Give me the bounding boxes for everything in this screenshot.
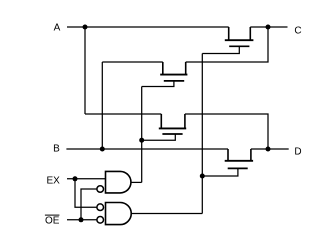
node junction D: [266, 147, 271, 152]
wire A to Q3 left (A-D net): [85, 113, 161, 115]
bubble U1 input 2: [97, 186, 104, 193]
wire C output: [250, 26, 287, 28]
wire A horizontal (A to Q1 left): [67, 26, 229, 28]
transistor Q4 (B-D pass): [225, 149, 253, 168]
svg-text:EX: EX: [47, 176, 61, 187]
node junction EX: [73, 176, 78, 181]
wire EX branch to U2 inverted input: [75, 179, 97, 207]
svg-text:B: B: [53, 143, 60, 154]
wire Q2 right to C vertical (B-C net): [186, 27, 268, 62]
wire straight-enable net vertical (U2 out to Q1/Q4 gates): [201, 54, 203, 214]
wire OE input: [67, 219, 97, 221]
wire Q3 gate lead: [142, 134, 176, 140]
svg-text:D: D: [294, 147, 301, 158]
wire Q1 gate lead: [202, 46, 239, 53]
wire B vertical branch to B-C net: [101, 62, 103, 149]
svg-text:A: A: [54, 22, 61, 33]
node junction A: [83, 25, 88, 30]
wire U1 output: [131, 181, 142, 183]
wire A vertical branch: [84, 27, 86, 114]
bubble U2 input 2: [97, 217, 104, 224]
node junction C: [266, 25, 271, 30]
op-amp U1 : AND gate EX AND NOT OE: [106, 171, 131, 193]
transistor Q3 (A-D pass): [159, 114, 186, 134]
node junction B: [100, 147, 105, 152]
node junction exchange net: [139, 138, 144, 143]
transistor Q2 (B-C pass): [160, 62, 187, 81]
wire OE branch to U1 inverted input: [81, 189, 97, 220]
bubble U2 input 1: [97, 204, 104, 211]
node junction OE: [79, 217, 84, 222]
wire D output: [251, 148, 289, 150]
svg-text:C: C: [294, 26, 301, 37]
op-amp U2 : AND gate NOT EX AND NOT OE: [106, 203, 132, 225]
wire EX input: [67, 178, 106, 180]
wire exchange-enable net vertical (U1 out to Q2/Q3 gates): [141, 87, 143, 183]
svg-text:OE: OE: [45, 215, 60, 226]
wire Q2 gate lead: [142, 81, 174, 87]
wire B horizontal: [66, 148, 228, 150]
transistor Q1 (A-C pass): [225, 27, 254, 46]
wire B to Q2 left (B-C net): [102, 61, 163, 63]
wire Q4 gate lead: [202, 168, 238, 176]
wire U2 output: [131, 213, 202, 215]
node OE (active low): [45, 215, 60, 226]
node junction straight net: [200, 174, 205, 179]
wire Q3 right to D vertical (A-D net): [185, 114, 268, 149]
